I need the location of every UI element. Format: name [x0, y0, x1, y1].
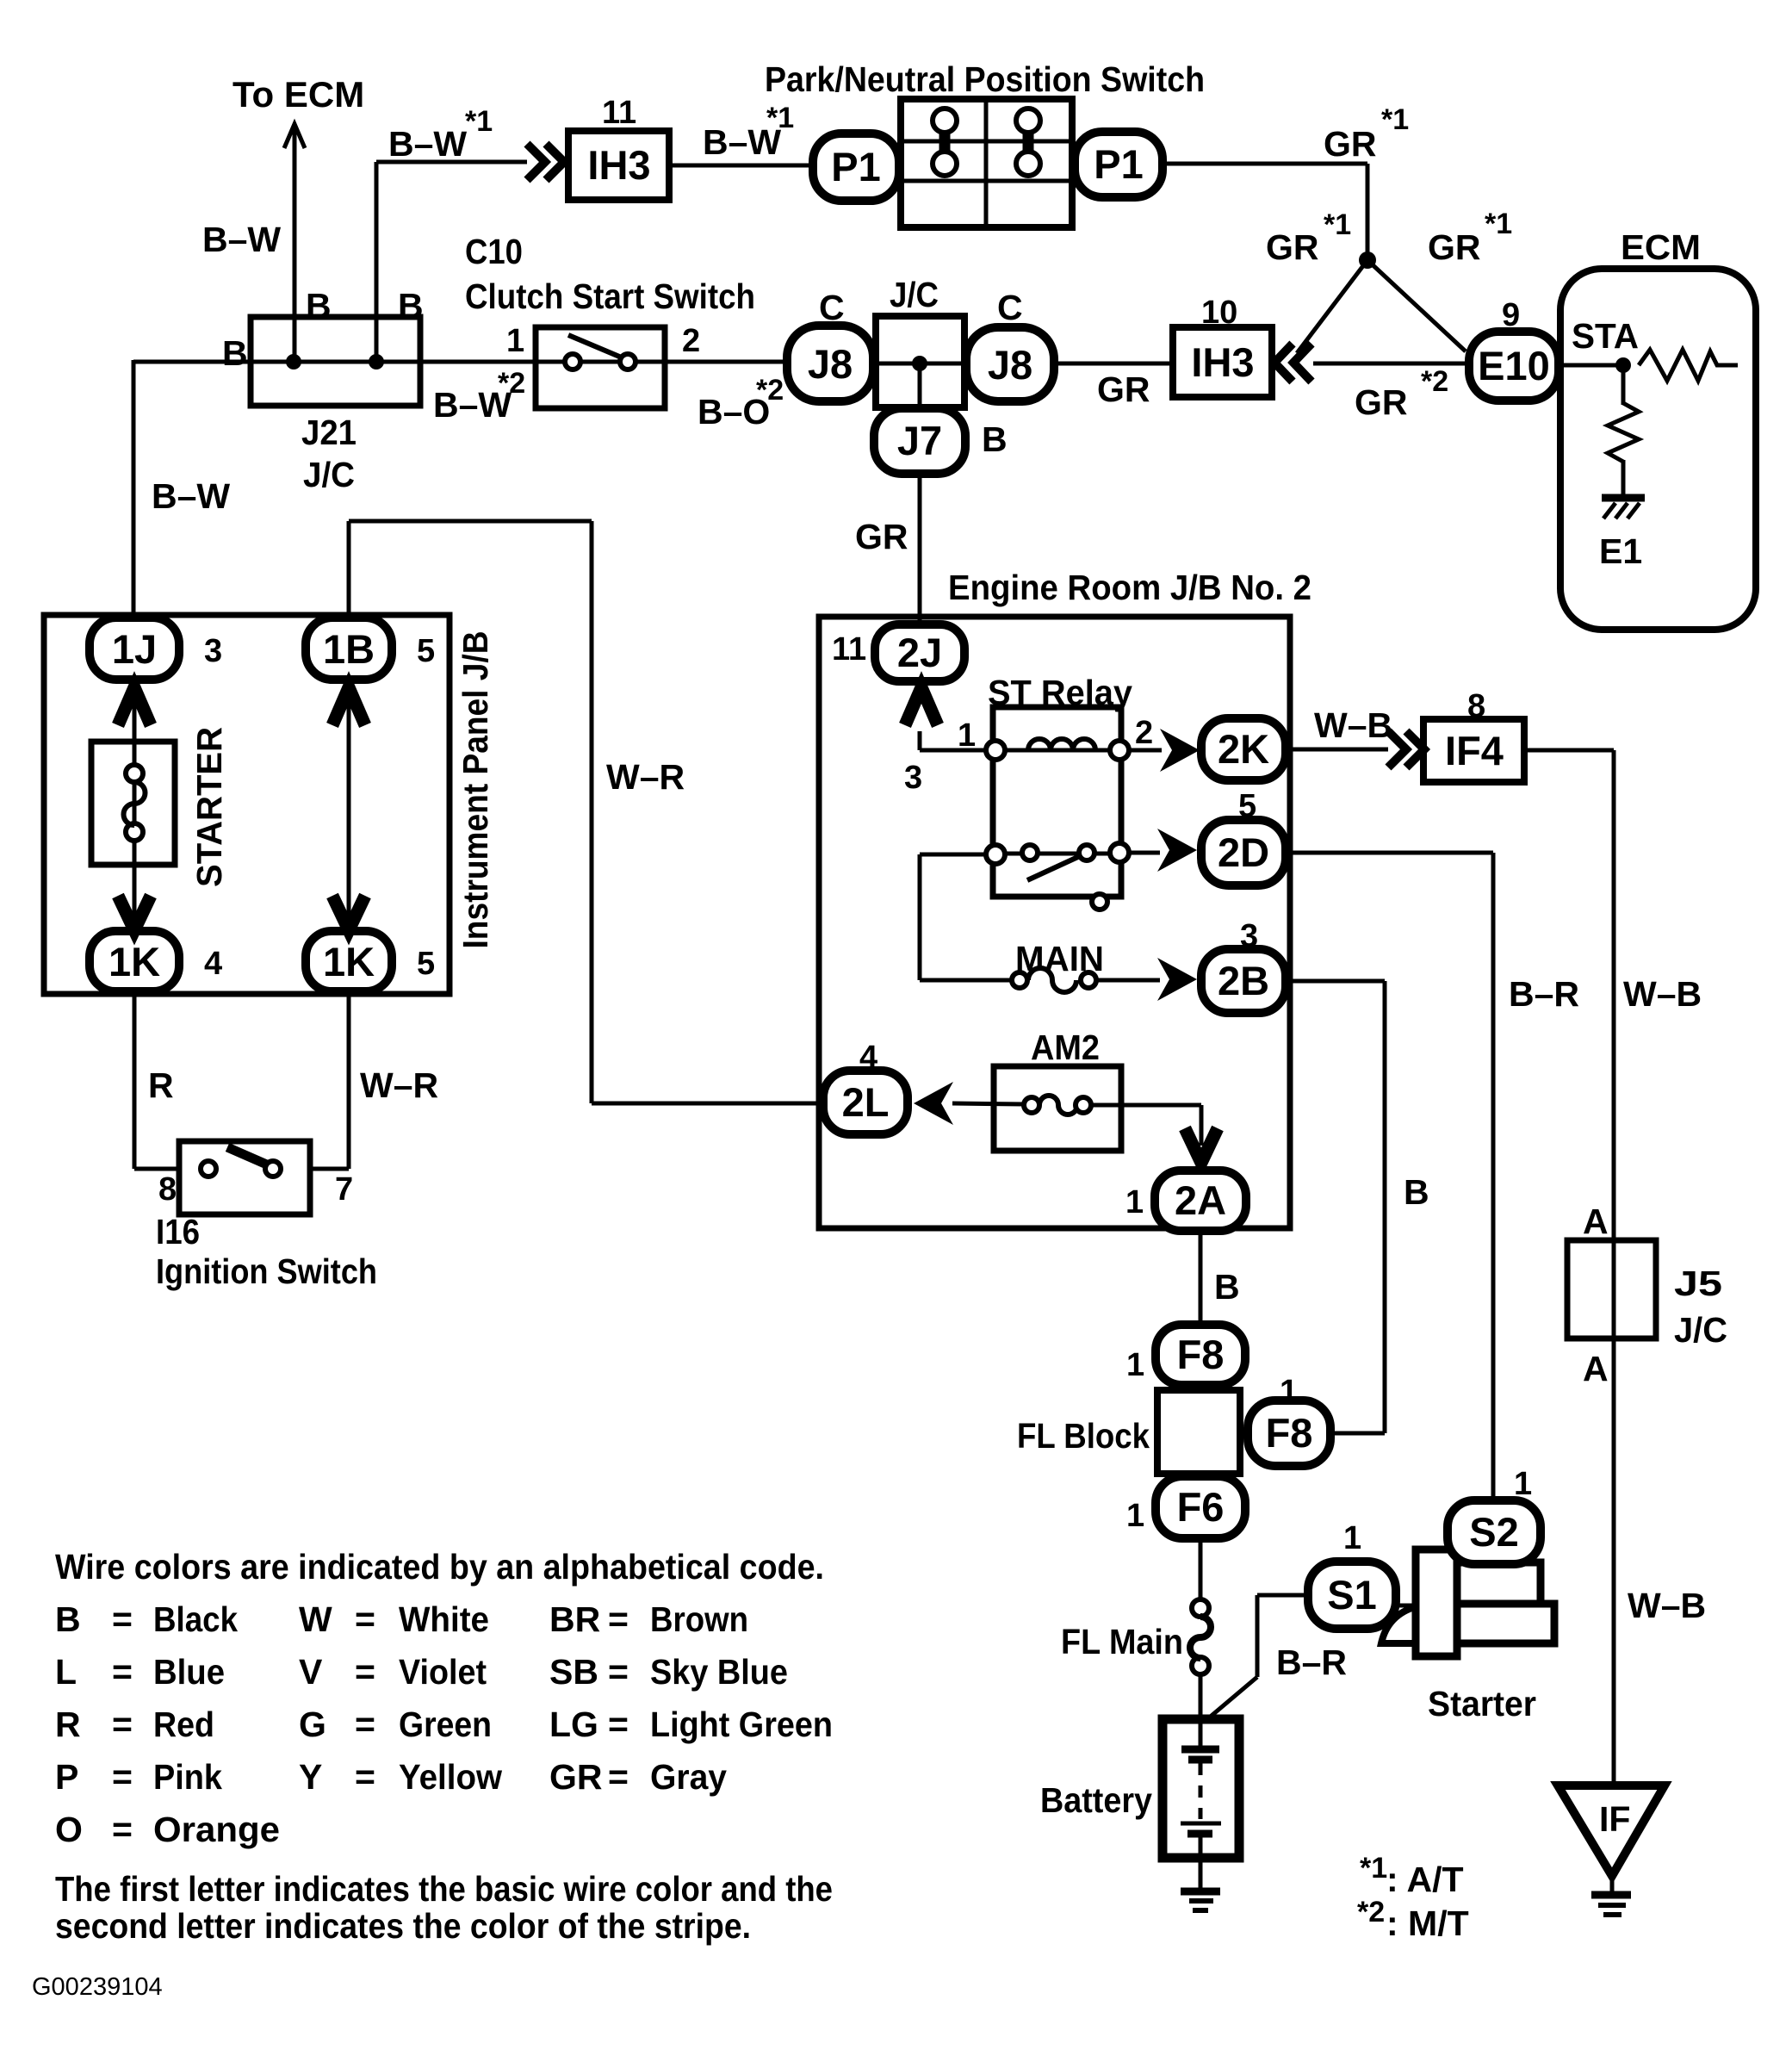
- svg-text:Wire colors are indicated by a: Wire colors are indicated by an alphabet…: [55, 1547, 824, 1587]
- svg-text:W–R: W–R: [360, 1065, 438, 1105]
- svg-text:*2: *2: [498, 367, 525, 400]
- svg-text:11: 11: [602, 95, 636, 131]
- svg-text:1J: 1J: [112, 626, 157, 672]
- svg-text:*1: *1: [1381, 103, 1409, 136]
- svg-text:=: =: [112, 1810, 133, 1849]
- svg-text:Starter: Starter: [1428, 1684, 1536, 1723]
- svg-text:*2: *2: [1357, 1896, 1385, 1928]
- svg-text:Battery: Battery: [1040, 1780, 1152, 1820]
- svg-text:E10: E10: [1478, 343, 1550, 388]
- svg-text:1: 1: [1280, 1374, 1298, 1410]
- svg-text:3: 3: [1240, 918, 1258, 954]
- svg-text:Engine Room J/B No. 2: Engine Room J/B No. 2: [948, 568, 1311, 607]
- svg-text:10: 10: [1201, 295, 1237, 331]
- svg-text:AM2: AM2: [1031, 1028, 1100, 1067]
- svg-text:G: G: [299, 1705, 326, 1744]
- svg-text:O: O: [55, 1810, 83, 1849]
- svg-text:J/C: J/C: [890, 275, 939, 314]
- svg-text:B: B: [982, 419, 1008, 459]
- svg-text:1K: 1K: [323, 939, 375, 984]
- svg-text:ST Relay: ST Relay: [988, 673, 1132, 712]
- svg-text:2L: 2L: [842, 1079, 890, 1125]
- svg-text:B–W: B–W: [152, 476, 230, 516]
- svg-text:*2: *2: [756, 374, 784, 407]
- svg-text:=: =: [608, 1652, 629, 1692]
- svg-text:Brown: Brown: [650, 1599, 748, 1639]
- svg-text:=: =: [112, 1652, 133, 1692]
- svg-text:W–R: W–R: [606, 757, 685, 797]
- svg-text:Yellow: Yellow: [399, 1757, 502, 1797]
- svg-text:7: 7: [335, 1171, 353, 1208]
- svg-text:1: 1: [958, 717, 976, 754]
- svg-text:Sky Blue: Sky Blue: [650, 1652, 788, 1692]
- svg-text:STARTER: STARTER: [189, 727, 229, 887]
- svg-text:4: 4: [204, 946, 222, 982]
- svg-text:1: 1: [1125, 1184, 1144, 1220]
- svg-text:J5: J5: [1674, 1264, 1722, 1303]
- svg-text:*1: *1: [1360, 1852, 1387, 1885]
- svg-text:*1: *1: [1324, 208, 1351, 241]
- svg-text:B–W: B–W: [202, 220, 281, 259]
- svg-text:V: V: [299, 1652, 323, 1692]
- svg-text:GR: GR: [1097, 370, 1150, 409]
- svg-text:R: R: [148, 1065, 174, 1105]
- svg-text:=: =: [112, 1757, 133, 1797]
- svg-text:5: 5: [1238, 788, 1256, 824]
- svg-text:1: 1: [506, 323, 524, 359]
- svg-text:2K: 2K: [1218, 726, 1269, 772]
- svg-text:2: 2: [682, 323, 700, 359]
- svg-text:2D: 2D: [1218, 829, 1269, 875]
- svg-text:F6: F6: [1177, 1484, 1225, 1530]
- svg-text:P1: P1: [1094, 141, 1144, 187]
- svg-text:C: C: [997, 288, 1023, 327]
- svg-text:1: 1: [1343, 1520, 1361, 1556]
- svg-text:=: =: [608, 1757, 629, 1797]
- svg-text:2A: 2A: [1175, 1177, 1226, 1223]
- svg-text:Green: Green: [399, 1705, 492, 1744]
- svg-text:White: White: [399, 1599, 489, 1639]
- svg-text:2B: 2B: [1218, 958, 1269, 1003]
- svg-text:LG: LG: [549, 1705, 598, 1744]
- svg-text:G00239104: G00239104: [32, 1973, 163, 2001]
- svg-text:4: 4: [859, 1040, 877, 1076]
- svg-text:FL Main: FL Main: [1061, 1622, 1183, 1661]
- svg-text:FL Block: FL Block: [1017, 1416, 1150, 1456]
- svg-text:GR: GR: [1266, 227, 1319, 267]
- svg-text:F8: F8: [1177, 1332, 1225, 1377]
- svg-text:J8: J8: [808, 341, 853, 387]
- svg-text:*1: *1: [766, 102, 794, 134]
- svg-text:=: =: [355, 1599, 375, 1639]
- svg-text:1: 1: [1126, 1347, 1144, 1383]
- svg-text:=: =: [112, 1705, 133, 1744]
- svg-text:1B: 1B: [323, 626, 375, 672]
- svg-text:W–B: W–B: [1623, 974, 1702, 1014]
- svg-text:1: 1: [1126, 1498, 1144, 1534]
- svg-text:2J: 2J: [897, 630, 942, 675]
- svg-text:=: =: [608, 1705, 629, 1744]
- svg-text:1: 1: [1514, 1466, 1532, 1502]
- svg-text:: A/T: : A/T: [1386, 1860, 1464, 1899]
- svg-text:: M/T: : M/T: [1386, 1903, 1469, 1943]
- svg-text:Y: Y: [299, 1757, 322, 1797]
- svg-text:The first letter indicates the: The first letter indicates the basic wir…: [55, 1869, 833, 1909]
- svg-text:Blue: Blue: [153, 1652, 225, 1692]
- svg-text:P1: P1: [831, 144, 881, 189]
- svg-text:Black: Black: [153, 1599, 238, 1639]
- svg-text:BR: BR: [549, 1599, 600, 1639]
- svg-text:*1: *1: [1485, 208, 1512, 240]
- svg-text:Violet: Violet: [399, 1652, 487, 1692]
- svg-text:A: A: [1583, 1349, 1609, 1388]
- svg-text:11: 11: [832, 631, 866, 668]
- svg-text:GR: GR: [549, 1757, 603, 1797]
- svg-text:1K: 1K: [109, 939, 160, 984]
- svg-text:W: W: [299, 1599, 332, 1639]
- svg-text:=: =: [112, 1599, 133, 1639]
- svg-text:3: 3: [904, 760, 922, 796]
- svg-text:=: =: [608, 1599, 629, 1639]
- svg-text:9: 9: [1502, 297, 1520, 333]
- svg-text:B: B: [1214, 1267, 1240, 1307]
- svg-text:I16: I16: [156, 1212, 200, 1251]
- svg-text:GR: GR: [855, 517, 908, 556]
- svg-text:P: P: [55, 1757, 78, 1797]
- svg-text:IF4: IF4: [1445, 728, 1504, 773]
- svg-text:8: 8: [158, 1171, 177, 1208]
- svg-text:5: 5: [417, 946, 435, 982]
- svg-text:*1: *1: [465, 105, 493, 138]
- svg-text:J/C: J/C: [1674, 1310, 1727, 1350]
- svg-text:Light Green: Light Green: [650, 1705, 833, 1744]
- svg-text:R: R: [55, 1705, 81, 1744]
- svg-text:SB: SB: [549, 1652, 598, 1692]
- svg-text:second letter indicates the co: second letter indicates the color of the…: [55, 1906, 751, 1946]
- svg-text:8: 8: [1467, 688, 1485, 724]
- svg-text:MAIN: MAIN: [1015, 939, 1104, 978]
- svg-text:Pink: Pink: [153, 1757, 222, 1797]
- svg-text:B: B: [306, 286, 332, 326]
- svg-text:IH3: IH3: [1191, 339, 1254, 385]
- svg-text:B: B: [55, 1599, 81, 1639]
- svg-text:=: =: [355, 1757, 375, 1797]
- svg-text:=: =: [355, 1705, 375, 1744]
- svg-text:B: B: [398, 286, 424, 326]
- svg-text:3: 3: [204, 633, 222, 669]
- svg-text:B: B: [1404, 1172, 1429, 1212]
- svg-text:GR: GR: [1428, 227, 1481, 267]
- svg-text:ECM: ECM: [1621, 227, 1701, 267]
- svg-text:*2: *2: [1421, 365, 1448, 398]
- svg-text:2: 2: [1135, 715, 1153, 751]
- svg-text:Park/Neutral Position Switch: Park/Neutral Position Switch: [765, 59, 1205, 99]
- svg-text:W–B: W–B: [1314, 705, 1392, 745]
- svg-text:Clutch Start Switch: Clutch Start Switch: [465, 276, 755, 316]
- svg-text:To ECM: To ECM: [233, 74, 364, 115]
- svg-text:GR: GR: [1355, 382, 1408, 422]
- svg-text:STA: STA: [1572, 316, 1639, 356]
- svg-text:Orange: Orange: [153, 1810, 280, 1849]
- svg-text:B–R: B–R: [1276, 1643, 1347, 1682]
- svg-text:S2: S2: [1469, 1509, 1519, 1555]
- svg-text:W–B: W–B: [1628, 1586, 1706, 1625]
- svg-text:F8: F8: [1266, 1410, 1313, 1456]
- svg-text:=: =: [355, 1652, 375, 1692]
- svg-text:B: B: [222, 333, 248, 373]
- svg-text:J21: J21: [301, 413, 357, 452]
- svg-text:IF: IF: [1599, 1799, 1630, 1839]
- svg-text:IH3: IH3: [587, 142, 650, 188]
- svg-text:5: 5: [417, 633, 435, 669]
- svg-text:J7: J7: [897, 418, 942, 463]
- svg-text:L: L: [55, 1652, 77, 1692]
- svg-text:E1: E1: [1599, 531, 1642, 571]
- svg-text:C: C: [819, 288, 845, 327]
- svg-text:Gray: Gray: [650, 1757, 727, 1797]
- svg-text:GR: GR: [1324, 124, 1377, 164]
- svg-text:C10: C10: [465, 232, 523, 271]
- svg-text:J8: J8: [988, 342, 1032, 388]
- svg-text:S1: S1: [1327, 1572, 1377, 1618]
- svg-text:J/C: J/C: [303, 455, 355, 494]
- svg-text:Ignition Switch: Ignition Switch: [156, 1251, 377, 1291]
- svg-text:A: A: [1583, 1202, 1609, 1241]
- svg-text:Red: Red: [153, 1705, 214, 1744]
- svg-text:B–R: B–R: [1509, 974, 1579, 1014]
- svg-text:B–W: B–W: [388, 124, 467, 164]
- svg-text:Instrument Panel J/B: Instrument Panel J/B: [456, 631, 495, 949]
